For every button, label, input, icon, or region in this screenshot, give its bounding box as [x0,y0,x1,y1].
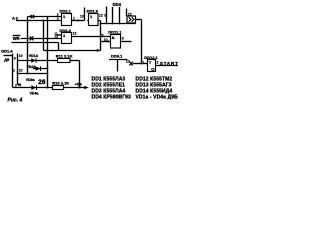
svg-text:DD1.6: DD1.6 [87,9,99,14]
svg-text:5: 5 [102,34,104,38]
svg-text:VD1a - VD4a Д9Б: VD1a - VD4a Д9Б [136,94,179,100]
svg-text:8: 8 [122,37,124,41]
svg-text:26: 26 [38,79,46,86]
svg-text:DD4 КР580ВГ93: DD4 КР580ВГ93 [92,94,132,100]
svg-text:10: 10 [104,38,108,42]
svg-text:13: 13 [80,15,84,19]
svg-text:R11 2.1K: R11 2.1K [56,54,73,59]
svg-text:12: 12 [99,13,103,17]
svg-text:+5B: +5B [75,82,82,87]
svg-text:2: 2 [157,60,159,64]
svg-text:2: 2 [97,49,99,53]
svg-text:Рис. 4: Рис. 4 [8,97,23,103]
svg-text:Д5: Д5 [4,57,10,62]
svg-text:VD3a: VD3a [26,78,35,82]
svg-text:3: 3 [57,17,59,21]
svg-text:VD2A: VD2A [27,65,37,69]
svg-text:Q: Q [151,67,154,72]
svg-text:10: 10 [19,68,23,72]
svg-text:DD1.4: DD1.4 [1,48,13,53]
svg-text:2: 2 [15,84,17,88]
svg-text:VD1A: VD1A [29,54,39,58]
svg-text:19: 19 [19,54,23,58]
svg-text:WR: WR [13,36,20,41]
svg-text:DD4: DD4 [113,2,122,7]
svg-text:1: 1 [142,60,144,64]
svg-text:15: 15 [128,12,132,16]
svg-text:&: & [112,35,115,40]
svg-text:DD12.1: DD12.1 [144,55,158,60]
svg-text:11: 11 [18,83,22,87]
svg-text:DD11.1: DD11.1 [108,30,122,35]
svg-text:9: 9 [14,57,16,61]
svg-text:12: 12 [54,35,58,39]
svg-text:A2: A2 [12,16,19,21]
svg-text:13: 13 [73,31,77,35]
svg-text:START: START [160,61,179,67]
svg-text:R10 2.1K: R10 2.1K [52,81,69,86]
svg-text:DD9.1: DD9.1 [111,54,123,59]
svg-text:1: 1 [13,68,15,72]
svg-text:3: 3 [104,13,106,17]
svg-text:1: 1 [73,17,75,21]
svg-text:DD2.4: DD2.4 [60,28,72,33]
svg-text:DD2.1: DD2.1 [60,9,72,14]
svg-text:13: 13 [126,60,130,64]
svg-text:VD4a: VD4a [30,91,39,95]
